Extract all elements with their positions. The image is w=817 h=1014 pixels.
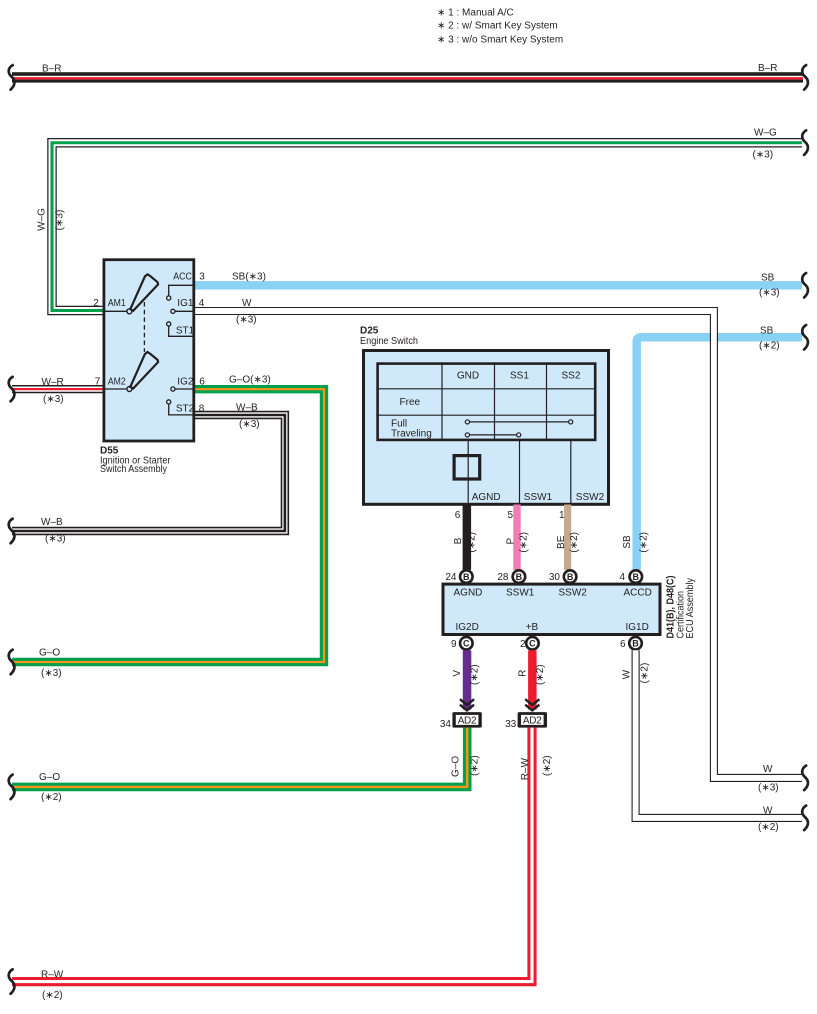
svg-text:W: W bbox=[242, 298, 252, 309]
svg-text:34: 34 bbox=[440, 719, 452, 730]
connector G-O(*2) left end bbox=[9, 775, 15, 800]
svg-text:B: B bbox=[463, 572, 470, 582]
svg-text:SSW2: SSW2 bbox=[559, 587, 588, 598]
svg-text:B–R: B–R bbox=[42, 63, 61, 74]
wire W-G (*3) bbox=[52, 143, 802, 311]
wire W (*3) from IG1 bbox=[194, 311, 802, 778]
svg-text:∗ 3 : w/o Smart Key System: ∗ 3 : w/o Smart Key System bbox=[437, 34, 563, 45]
svg-text:AM1: AM1 bbox=[108, 298, 126, 309]
connector B-R left end bbox=[9, 65, 15, 90]
contact row GND-SS1 bbox=[465, 433, 521, 437]
svg-text:AM2: AM2 bbox=[108, 377, 126, 388]
svg-text:R: R bbox=[517, 670, 528, 677]
svg-text:W–R: W–R bbox=[42, 377, 64, 388]
svg-text:B: B bbox=[516, 572, 523, 582]
svg-text:V: V bbox=[452, 670, 463, 677]
svg-text:8: 8 bbox=[199, 404, 205, 415]
arrow chevrons R bbox=[525, 699, 539, 710]
contact AM1 with wiper lever bbox=[104, 310, 127, 312]
ignition switch D55 box bbox=[104, 260, 194, 441]
svg-text:W–B: W–B bbox=[236, 403, 258, 414]
svg-text:(∗3): (∗3) bbox=[55, 210, 66, 231]
svg-text:4: 4 bbox=[199, 298, 205, 309]
connector W-B left end bbox=[9, 519, 15, 544]
wire W-B (*3) from ST2 bbox=[12, 415, 285, 531]
contact AM2 with wiper lever bbox=[104, 388, 127, 390]
svg-text:AGND: AGND bbox=[454, 587, 483, 598]
svg-text:AD2: AD2 bbox=[523, 715, 542, 726]
svg-text:(∗3): (∗3) bbox=[753, 149, 774, 160]
svg-text:Engine Switch: Engine Switch bbox=[360, 336, 418, 347]
svg-text:ECU Assembly: ECU Assembly bbox=[685, 578, 696, 639]
D25 state table bbox=[376, 362, 596, 441]
svg-text:W: W bbox=[763, 805, 773, 816]
svg-text:B: B bbox=[632, 639, 639, 649]
wire SSW2 internal bbox=[570, 441, 572, 504]
svg-text:SSW1: SSW1 bbox=[524, 492, 553, 503]
svg-text:SS2: SS2 bbox=[562, 370, 581, 381]
svg-text:∗ 2 : w/ Smart Key System: ∗ 2 : w/ Smart Key System bbox=[437, 20, 558, 31]
arrow chevrons V bbox=[460, 699, 474, 710]
dashed link between wipers bbox=[143, 302, 145, 352]
ECU box D41(B) D48(C) bbox=[443, 584, 660, 634]
svg-text:+B: +B bbox=[526, 622, 539, 633]
svg-text:6: 6 bbox=[620, 639, 626, 650]
svg-text:B: B bbox=[633, 572, 640, 582]
svg-text:SB: SB bbox=[761, 272, 775, 283]
connector square on AGND bbox=[454, 456, 480, 479]
wire AGND internal bbox=[467, 441, 469, 504]
svg-text:6: 6 bbox=[455, 510, 461, 521]
svg-text:W–G: W–G bbox=[754, 128, 777, 139]
connector W(*3) right end bbox=[802, 766, 808, 791]
svg-text:W: W bbox=[763, 764, 773, 775]
contact ACC elbow bbox=[169, 285, 194, 295]
svg-text:Free: Free bbox=[400, 397, 421, 408]
svg-text:6: 6 bbox=[199, 377, 205, 388]
svg-text:AD2: AD2 bbox=[458, 715, 477, 726]
svg-text:IG2: IG2 bbox=[177, 377, 194, 388]
svg-text:(∗2): (∗2) bbox=[42, 990, 63, 1001]
wire SB (*3) from ACC bbox=[195, 281, 802, 289]
svg-text:G–O: G–O bbox=[39, 772, 60, 783]
svg-text:1: 1 bbox=[559, 510, 565, 521]
svg-text:7: 7 bbox=[95, 377, 101, 388]
svg-text:SSW2: SSW2 bbox=[576, 492, 605, 503]
wire SSW1 internal bbox=[519, 441, 521, 504]
svg-text:(∗3): (∗3) bbox=[758, 782, 779, 793]
wire V from IG2D bbox=[463, 650, 472, 709]
svg-text:GND: GND bbox=[457, 370, 479, 381]
svg-text:P: P bbox=[506, 537, 517, 544]
svg-text:R–W: R–W bbox=[520, 757, 531, 780]
svg-text:(∗3): (∗3) bbox=[41, 668, 62, 679]
svg-text:SB: SB bbox=[622, 535, 633, 549]
svg-text:5: 5 bbox=[507, 510, 513, 521]
svg-text:C: C bbox=[529, 639, 536, 649]
svg-text:4: 4 bbox=[619, 572, 625, 583]
svg-text:W–B: W–B bbox=[41, 517, 63, 528]
contact row GND-SS2 bbox=[465, 420, 573, 424]
wire G-O (*2) from AD2 34 bbox=[12, 728, 467, 787]
wire B from AGND bbox=[463, 505, 472, 570]
svg-text:(∗3): (∗3) bbox=[43, 394, 64, 405]
svg-text:SSW1: SSW1 bbox=[506, 587, 535, 598]
contact IG2 bbox=[175, 388, 194, 390]
svg-text:R–W: R–W bbox=[41, 969, 64, 980]
svg-text:D25: D25 bbox=[360, 325, 379, 336]
svg-text:(∗2): (∗2) bbox=[569, 532, 580, 553]
svg-text:∗ 1 : Manual A/C: ∗ 1 : Manual A/C bbox=[437, 7, 514, 18]
wire B-R horizontal bbox=[12, 72, 803, 82]
connector W-R left end bbox=[9, 377, 15, 402]
connector R-W left end bbox=[9, 969, 15, 994]
contact ST1 elbow bbox=[169, 326, 194, 336]
wire G-O (*3) from IG2 bbox=[12, 389, 324, 662]
wire W-R (*3) bbox=[12, 385, 103, 393]
svg-text:G–O: G–O bbox=[39, 648, 60, 659]
svg-text:(∗3): (∗3) bbox=[239, 419, 260, 430]
svg-text:(∗2): (∗2) bbox=[535, 664, 546, 685]
connector G-O(*3) left end bbox=[9, 650, 15, 675]
svg-text:G–O: G–O bbox=[450, 756, 461, 777]
svg-text:(∗2): (∗2) bbox=[758, 822, 779, 833]
svg-text:B–R: B–R bbox=[758, 63, 777, 74]
svg-text:9: 9 bbox=[451, 639, 457, 650]
svg-text:SS1: SS1 bbox=[510, 370, 529, 381]
wire P from SSW1 bbox=[513, 505, 520, 570]
svg-text:(∗3): (∗3) bbox=[759, 287, 780, 298]
svg-text:W: W bbox=[621, 669, 632, 679]
svg-text:(∗2): (∗2) bbox=[639, 663, 650, 684]
connector W-G right end bbox=[802, 130, 808, 155]
svg-text:28: 28 bbox=[497, 572, 509, 583]
svg-text:(∗2): (∗2) bbox=[467, 532, 478, 553]
svg-text:Traveling: Traveling bbox=[391, 429, 432, 440]
connector W(*2) right end bbox=[802, 806, 808, 831]
svg-text:24: 24 bbox=[445, 572, 457, 583]
svg-text:ACCD: ACCD bbox=[624, 587, 652, 598]
connector SB(*3) right end bbox=[802, 273, 808, 298]
wire W (*2) from IG1D bbox=[636, 650, 802, 818]
connector B-R right end bbox=[802, 65, 808, 90]
svg-text:G–O(∗3): G–O(∗3) bbox=[229, 375, 271, 386]
svg-text:C: C bbox=[463, 639, 470, 649]
svg-text:IG1D: IG1D bbox=[626, 622, 649, 633]
svg-text:ST2: ST2 bbox=[176, 404, 195, 415]
svg-text:SB: SB bbox=[760, 325, 774, 336]
svg-text:(∗2): (∗2) bbox=[470, 755, 481, 776]
connector SB(*2) right end bbox=[802, 325, 808, 350]
svg-text:2: 2 bbox=[93, 298, 99, 309]
svg-text:(∗2): (∗2) bbox=[542, 755, 553, 776]
svg-text:(∗2): (∗2) bbox=[519, 532, 530, 553]
svg-text:ACC: ACC bbox=[173, 271, 192, 282]
svg-text:IG1: IG1 bbox=[177, 298, 194, 309]
contact IG1 bbox=[175, 310, 194, 312]
engine switch D25 box bbox=[364, 351, 609, 505]
svg-text:D55: D55 bbox=[100, 445, 119, 456]
svg-text:B: B bbox=[453, 537, 464, 544]
svg-text:(∗2): (∗2) bbox=[638, 532, 649, 553]
svg-text:SB(∗3): SB(∗3) bbox=[232, 271, 266, 282]
svg-text:30: 30 bbox=[549, 572, 561, 583]
svg-text:(∗3): (∗3) bbox=[45, 534, 66, 545]
svg-text:BE: BE bbox=[556, 535, 567, 549]
svg-text:ST1: ST1 bbox=[176, 325, 195, 336]
svg-text:(∗3): (∗3) bbox=[236, 315, 257, 326]
wire R from +B bbox=[528, 650, 537, 709]
svg-text:W–G: W–G bbox=[37, 208, 48, 231]
wire BE from SSW2 bbox=[564, 505, 571, 570]
contact ST2 elbow bbox=[169, 404, 194, 415]
svg-text:33: 33 bbox=[505, 719, 517, 730]
svg-text:IG2D: IG2D bbox=[456, 622, 479, 633]
svg-text:B: B bbox=[567, 572, 574, 582]
svg-text:(∗2): (∗2) bbox=[41, 792, 62, 803]
wire SB (*2) to ECU ACCD bbox=[637, 337, 802, 570]
svg-text:AGND: AGND bbox=[472, 492, 501, 503]
svg-text:(∗2): (∗2) bbox=[470, 664, 481, 685]
svg-text:3: 3 bbox=[199, 271, 205, 282]
svg-text:(∗2): (∗2) bbox=[759, 340, 780, 351]
svg-text:Switch Assembly: Switch Assembly bbox=[100, 464, 167, 475]
wire R-W (*2) from AD2 33 bbox=[12, 728, 532, 982]
